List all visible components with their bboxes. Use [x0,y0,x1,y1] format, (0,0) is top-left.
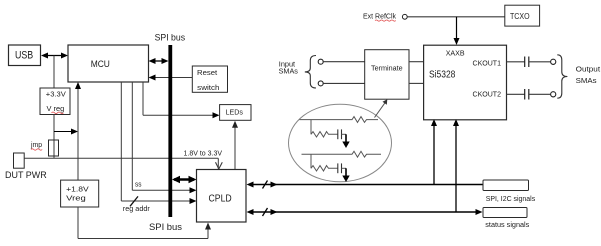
svg-text:jmp: jmp [30,140,42,149]
IC Si5328 box [424,45,507,120]
wire Terminate to Si5328 ch1 [409,61,424,63]
regulator +3.3V box [40,88,70,115]
svg-text:CPLD: CPLD [209,193,232,204]
detail ellipse termination zoom [289,104,392,182]
wire CPLD right lower bus (status signals) [247,208,483,216]
switch Reset box [192,66,227,92]
connector status signals box [483,208,530,230]
wire CKOUT1 to capacitor [507,61,525,63]
wire Terminate to Si5328 ch2 [409,82,424,84]
wire refclk down to XAXB with arrow [454,17,460,45]
svg-text:LEDs: LEDs [226,107,244,116]
svg-text:XAXB: XAXB [446,48,465,57]
svg-text:SPI bus: SPI bus [155,33,186,44]
wire MCU pin ss vertical [131,82,133,190]
label Ext RefClk [363,12,396,22]
label Input SMAs [279,59,299,75]
wire capacitor to output SMA 1 [529,61,550,63]
wire MCU pin reg addr vertical [120,82,122,201]
svg-text:MCU: MCU [91,59,110,70]
svg-text:+3.3V: +3.3V [46,90,66,99]
wire Si5328 status vertical with up arrow [453,119,459,212]
wire Reset to MCU with arrow [149,75,193,81]
label Output SMAs [576,64,601,84]
svg-text:CKOUT2: CKOUT2 [473,89,502,98]
wire MCU pin to LEDs [143,82,220,118]
capacitor CKOUT2 AC coupling [525,89,529,100]
wire USB-MCU bidirectional [41,53,68,59]
svg-text:Reset: Reset [197,68,218,77]
terminal input SMA circle 1 [318,59,323,64]
svg-text:Vreg: Vreg [66,193,86,202]
MCU box U1 [68,45,149,82]
wire RefClk to TCXO [408,16,505,18]
svg-text:SPI, I2C signals: SPI, I2C signals [486,196,536,203]
wire DUT PWR rail 1.8V-3.3V to CPLD with open arrow [24,158,222,169]
block Terminate [365,50,409,99]
USB box [9,45,41,66]
svg-text:Output: Output [576,64,601,73]
bus SPI vertical thick [168,45,172,217]
wire MCU-SPI bus bidirectional arrow [149,58,169,64]
wire LED power vertical, arrow into LEDs, down to CPLD top [232,121,238,170]
svg-text:status signals: status signals [485,222,530,229]
svg-text:CKOUT1: CKOUT1 [473,59,502,68]
callout arrow ellipse to Terminate [375,99,388,117]
connector DUT PWR [5,153,47,181]
wire CPLD right upper bus (SPI, I2C signals) [247,181,484,189]
svg-text:SPI bus: SPI bus [149,222,182,233]
svg-text:ss: ss [135,180,142,189]
wire reg addr to CPLD with arrow [121,198,196,204]
label jmp [30,140,42,150]
svg-text:1.8V to 3.3V: 1.8V to 3.3V [184,149,223,158]
regulator +1.8V box [61,180,99,207]
terminal input SMA circle 2 [318,81,323,86]
wire arrow 3.3V branch to MCU power line [54,129,78,135]
wire ss to CPLD with arrow [132,187,196,193]
capacitor CKOUT1 AC coupling [525,57,529,68]
svg-text:switch: switch [197,83,219,92]
svg-text:V reg: V reg [47,104,65,113]
LEDs box [220,105,251,121]
detail wire top channel [300,117,379,123]
svg-text:DUT PWR: DUT PWR [5,170,47,181]
terminal output SMA circle 1 [551,59,556,64]
svg-text:+1.8V: +1.8V [66,185,89,194]
wire SPI bus-CPLD thick bidirectional arrow [172,176,197,183]
connector SPI, I2C signals box [483,180,536,203]
svg-text:Terminate: Terminate [371,63,403,72]
brace output right [557,55,567,98]
svg-text:TCXO: TCXO [510,12,530,21]
wire CKOUT2 to capacitor [507,93,525,95]
jumper JP1 [49,140,59,156]
svg-text:reg addr: reg addr [123,204,150,213]
svg-text:SMAs: SMAs [576,76,597,85]
terminal Ext RefClk circle [402,14,407,19]
label reg addr with callout [123,196,150,213]
svg-text:SMAs: SMAs [279,66,299,75]
wire input 1 to Terminate [323,61,365,63]
wire MCU power vertical with arrow into MCU [75,82,81,180]
wire input 2 to Terminate [323,82,365,84]
wire 1.8V to CPLD bottom with arrow [78,207,211,239]
wire 3.3V reg to jumper [53,115,55,159]
detail termination network bottom: tap, resistor, capacitor, ground [311,154,350,182]
svg-text:USB: USB [15,50,33,62]
svg-text:Ext RefClk: Ext RefClk [363,12,396,21]
CPLD box U2 [197,170,247,223]
detail termination network top: tap, resistor, capacitor, ground [311,120,350,148]
terminal output SMA circle 2 [551,92,556,97]
svg-text:Si5328: Si5328 [429,69,456,80]
wire Si5328 SPI vertical with up arrow [431,119,437,185]
brace input left [305,56,316,89]
wire node junction to 3.3V regulator [53,56,55,89]
wire capacitor to output SMA 2 [529,93,550,95]
detail wire bottom channel [302,151,382,157]
oscillator TCXO box [505,5,540,26]
